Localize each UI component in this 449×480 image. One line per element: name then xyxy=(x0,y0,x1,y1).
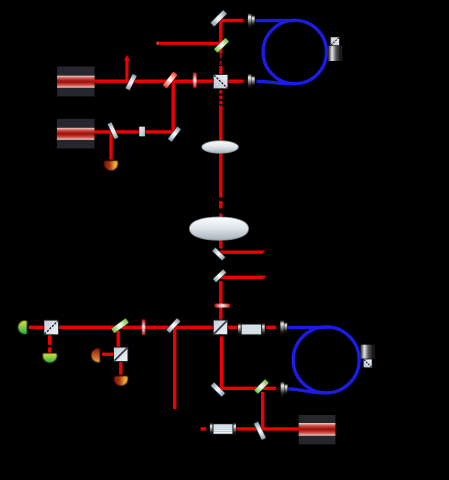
lens LN1 xyxy=(202,141,239,154)
beam dash segment xyxy=(219,201,222,209)
photodiode D2 green lower xyxy=(43,354,57,363)
beam dotted below BS1 xyxy=(219,90,222,104)
dichroic plate DC2 green xyxy=(254,379,269,394)
pickoff plate P2 steep xyxy=(107,122,118,139)
mirror M1 top xyxy=(210,10,227,27)
beam pickoff up arrow xyxy=(124,55,130,81)
beam stub east from mirror M3 xyxy=(219,251,265,254)
beam EOM2 to laser3 xyxy=(237,427,300,430)
beam vertical pickoff drop lower xyxy=(173,329,176,410)
photodiode PD1 orange dome xyxy=(104,161,118,170)
photodiode D1 green xyxy=(18,321,27,334)
beam dashed BS2 to green detector D2 xyxy=(48,335,51,352)
beam green detector D1 to BS2 xyxy=(29,326,44,329)
photodiode PD2 orange dome lower xyxy=(114,376,128,385)
beam splitter cube BS4 xyxy=(213,320,228,335)
beam stub east from mirror M4 xyxy=(220,276,267,279)
fiber detector FD2 xyxy=(360,345,374,368)
beam BS3 to photodiode PD2 xyxy=(119,361,122,374)
beam vertical BS4 to corner mirror xyxy=(220,337,223,387)
lens LN2 xyxy=(189,217,248,240)
beam waveplate to BS3 xyxy=(116,331,119,348)
combiner plate P4 steep xyxy=(254,421,267,440)
mirror M5 corner xyxy=(210,382,225,397)
mirror M4 xyxy=(213,269,227,283)
mirror M3 xyxy=(212,247,226,260)
beam splitter cube BS1 xyxy=(213,74,228,88)
beam splitter cube BS2 xyxy=(44,320,59,335)
beam BS1 to fiber coupler FC2 xyxy=(228,79,244,82)
beam EOM1 to fiber coupler FC4 xyxy=(266,326,276,329)
beam BS4 to EOM1 xyxy=(228,326,239,329)
photodiode D3 red xyxy=(91,348,99,362)
dichroic plate DC1 red xyxy=(162,71,177,88)
waveplate WP1 green xyxy=(214,38,229,53)
beam main vertical through lens1 xyxy=(219,106,222,198)
beam to photodiode PD1 xyxy=(109,133,112,160)
iris I1 xyxy=(193,73,196,88)
beam upper horizontal xyxy=(160,42,222,45)
fiber loop FL1 xyxy=(256,20,327,83)
fiber coupler FC4 xyxy=(276,320,287,335)
fiber coupler FC2 xyxy=(244,74,255,89)
pickoff plate P3 lower xyxy=(166,318,181,333)
fiber coupler FC5 xyxy=(277,382,287,397)
beam lower row BS2 to BS4 xyxy=(58,326,213,329)
iris I2 xyxy=(142,320,145,336)
EOM2 xyxy=(210,423,237,435)
isolator small gray element xyxy=(139,126,145,136)
beam red detector D3 to BS3 xyxy=(102,353,114,356)
beam dash west of EOM2 xyxy=(201,427,207,430)
fiber coupler FC1 xyxy=(244,13,255,28)
pickoff plate P1 steep xyxy=(125,74,137,91)
laser L1 xyxy=(57,67,95,97)
beam dashed dark below waveplate WP1 xyxy=(220,54,223,65)
beam corner to fiber coupler FC5 xyxy=(220,387,276,390)
beam splitter cube BS3 xyxy=(114,347,129,362)
beam vertical mirror M1 to BS1 xyxy=(219,20,222,75)
node beam start dot xyxy=(156,41,160,45)
laser L2 xyxy=(57,119,95,149)
fiber loop FL2 xyxy=(288,327,359,393)
beam laser2 to mirror M2 xyxy=(94,130,175,133)
beam vertical below mirror M4 xyxy=(219,281,222,321)
beam main vertical through lens2 xyxy=(219,214,222,249)
beam mirror M1 to fiber coupler FC1 xyxy=(220,19,243,22)
laser L3 xyxy=(299,415,336,444)
EOM1 xyxy=(238,323,265,335)
fiber detector FD1 xyxy=(328,37,342,61)
iris I3 horizontal xyxy=(215,304,230,308)
mirror M2 xyxy=(168,126,182,142)
beam laser1 to BS1 xyxy=(94,79,214,82)
beam combiner vertical laser3 up xyxy=(261,392,264,430)
beam laser2 vertical to combiner plate xyxy=(171,79,174,134)
waveplate WP2 green lower xyxy=(111,318,129,333)
